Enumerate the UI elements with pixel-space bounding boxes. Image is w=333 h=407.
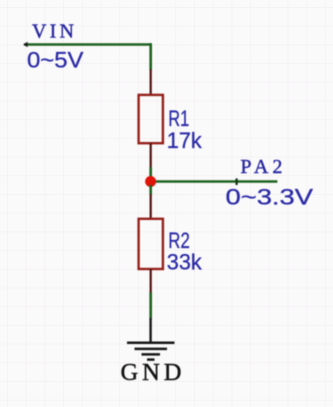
ground bar 3 bbox=[142, 353, 161, 356]
resistor R1 body bbox=[139, 95, 163, 143]
resistor R1 pin 1 bbox=[150, 70, 152, 96]
svg-text:GND: GND bbox=[121, 359, 182, 386]
svg-text:0~5V: 0~5V bbox=[27, 48, 84, 73]
wire R2 to ground bbox=[149, 293, 152, 319]
wire PA2 label anchor tick bbox=[236, 178, 238, 185]
resistor R2 pin 1 bbox=[150, 194, 152, 219]
wire node to R2 bbox=[149, 185, 152, 194]
svg-text:0~3.3V: 0~3.3V bbox=[226, 185, 314, 210]
svg-text:17k: 17k bbox=[167, 128, 203, 153]
resistor R2 body bbox=[139, 219, 163, 269]
node junction dot bbox=[145, 176, 156, 187]
svg-text:VIN: VIN bbox=[32, 21, 74, 43]
ground bar 2 bbox=[135, 348, 168, 351]
wire R1 to node bbox=[149, 167, 152, 178]
ground stem bbox=[149, 318, 151, 342]
wire VIN input arrow marker bbox=[23, 42, 27, 48]
resistor R1 pin 2 bbox=[150, 143, 152, 168]
svg-text:PA2: PA2 bbox=[240, 156, 282, 178]
resistor R2 pin 2 bbox=[150, 269, 152, 293]
svg-text:33k: 33k bbox=[167, 250, 203, 275]
ground bar 1 bbox=[127, 342, 175, 345]
wire VIN vertical segment bbox=[149, 43, 152, 70]
wire VIN horizontal bbox=[24, 43, 152, 46]
ground bar 4 bbox=[147, 358, 155, 361]
wire node to PA2 bbox=[151, 180, 278, 183]
